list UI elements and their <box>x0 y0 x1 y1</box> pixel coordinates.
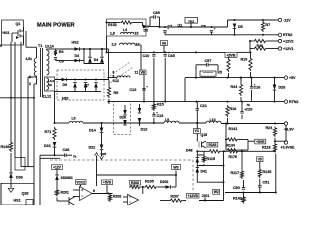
svg-text:2,3: 2,3 <box>112 43 117 47</box>
wire D5 lower lead <box>234 29 236 35</box>
svg-text:+12VB: +12VB <box>188 194 199 198</box>
svg-text:L4: L4 <box>123 28 127 32</box>
dashed box D26 <box>114 102 131 135</box>
power label +12V0 <box>52 165 63 170</box>
label pin 8 <box>113 71 115 75</box>
power label R206 box <box>130 180 141 185</box>
wire C50 links <box>225 180 244 193</box>
svg-text:C21: C21 <box>200 104 207 108</box>
svg-text:R44: R44 <box>231 85 239 89</box>
wire J201 wire <box>199 198 224 202</box>
resistor R142 <box>242 196 245 204</box>
wire D14 vertical <box>101 123 103 128</box>
wire horizontal into left edge <box>0 97 35 99</box>
svg-text:4,5x: 4,5x <box>26 57 33 61</box>
label R9 <box>114 91 119 95</box>
diode D36 <box>9 173 13 178</box>
power label +5VS <box>102 180 113 185</box>
wire C9 to bridge <box>56 59 85 62</box>
svg-text:V5: V5 <box>258 157 262 161</box>
component body Q28 <box>26 200 33 206</box>
label C50 <box>233 186 240 190</box>
label J201 <box>202 194 210 198</box>
dashed box heatsink <box>57 70 104 100</box>
wire R115 top vert <box>196 151 198 157</box>
svg-text:D9: D9 <box>63 83 68 87</box>
svg-text:C57: C57 <box>205 59 212 63</box>
label 1,6 <box>110 32 115 36</box>
svg-text:D28: D28 <box>279 86 286 90</box>
inductor L6 <box>69 121 83 123</box>
svg-text:J201: J201 <box>202 194 210 198</box>
wire D36 to ground <box>10 178 12 188</box>
resistor R152 <box>120 21 133 24</box>
svg-text:VA: VA <box>162 41 167 45</box>
svg-text:R19: R19 <box>241 58 248 62</box>
svg-text:R143: R143 <box>208 143 216 147</box>
wire R15 C19 link <box>153 112 155 124</box>
wire opamp2 leads <box>123 187 143 202</box>
svg-text:C8: C8 <box>201 25 206 29</box>
label C10 <box>143 54 150 58</box>
svg-text:D202: D202 <box>160 180 168 184</box>
label 15 <box>135 32 139 36</box>
wire rail77 left vert <box>184 78 186 102</box>
wire R16 lower <box>227 118 229 125</box>
diode D31 <box>53 142 57 147</box>
label pin 1 <box>29 75 31 79</box>
wire R152 right lead <box>133 22 143 24</box>
svg-text:+5VB: +5VB <box>227 53 236 57</box>
resistor R134 <box>226 148 238 151</box>
svg-text:D5: D5 <box>238 25 243 29</box>
wire D3 leads <box>143 23 160 27</box>
label HS1 <box>3 31 10 35</box>
label D202 <box>160 180 168 184</box>
capacitor C16 <box>250 84 256 88</box>
label L4 <box>123 28 127 32</box>
svg-text:D3: D3 <box>144 29 149 33</box>
box around Q1 <box>2 20 24 45</box>
svg-text:17: 17 <box>136 43 140 47</box>
svg-text:D41: D41 <box>201 170 207 174</box>
svg-text:C50: C50 <box>233 186 240 190</box>
svg-text:R176: R176 <box>229 155 237 159</box>
wire C21 leads <box>196 102 198 124</box>
transformer T1 secondary winding <box>47 50 50 75</box>
power label +12VB <box>187 193 200 198</box>
wire left bus 1 <box>10 42 12 141</box>
resistor R201 <box>55 189 58 197</box>
svg-text:+5VS: +5VS <box>103 181 112 185</box>
wire +12V0 down <box>56 169 58 175</box>
label HS2 lower <box>62 97 68 101</box>
wire big box left edge <box>40 155 55 205</box>
svg-text:R206: R206 <box>131 181 139 185</box>
svg-text:R16: R16 <box>230 107 237 111</box>
label C38 <box>63 148 70 152</box>
svg-text:2: 2 <box>29 82 31 86</box>
wire +5VS down <box>106 185 108 194</box>
wire right vertical 275 <box>275 154 277 194</box>
resistor R16 <box>226 105 229 117</box>
label D14 <box>89 129 97 133</box>
svg-text:C16: C16 <box>254 86 261 90</box>
transformer T1 primary winding <box>34 47 36 76</box>
diode D10 <box>84 83 88 88</box>
label D36 <box>16 176 23 180</box>
svg-text:C65: C65 <box>168 54 175 58</box>
resistor R19 <box>249 57 252 71</box>
capacitor C13 <box>142 86 148 90</box>
svg-text:VCC2: VCC2 <box>76 180 85 184</box>
diode D4a <box>75 47 80 51</box>
label R7 <box>266 23 271 27</box>
label D46 <box>94 58 99 62</box>
svg-text:R134: R134 <box>227 144 235 148</box>
svg-text:C13: C13 <box>130 88 137 92</box>
wire C51 links <box>259 179 261 193</box>
resistor R48b <box>253 47 267 50</box>
label C8 <box>201 25 206 29</box>
label R176 <box>229 155 237 159</box>
box around R152/L4 <box>107 19 147 36</box>
wire +3.3V to +3.3VS <box>285 125 287 141</box>
transistor Q15 <box>199 141 206 148</box>
wire vertical to R48 <box>249 41 251 52</box>
svg-text:Q15: Q15 <box>201 133 208 137</box>
resistor R176 <box>227 150 239 153</box>
inductor L10 <box>206 121 221 123</box>
box left-bottom <box>15 158 25 171</box>
wire L4 lower right lead <box>135 45 141 70</box>
wire rail 52.4 right part <box>237 51 250 53</box>
inductor L9 <box>164 121 179 123</box>
svg-text:+12V1: +12V1 <box>283 47 294 51</box>
wire D26 leads <box>124 105 126 125</box>
label D4 <box>75 54 81 58</box>
svg-text:R207: R207 <box>171 195 179 199</box>
diode D28 <box>273 85 277 91</box>
connector +3.3VS <box>284 141 287 144</box>
label R44 <box>231 85 239 89</box>
resistor R48a <box>253 39 267 42</box>
svg-text:W2: W2 <box>214 190 219 194</box>
svg-text:Q1: Q1 <box>16 22 21 26</box>
wire +5VR link <box>248 140 255 142</box>
wire R152 box stub down <box>106 36 108 53</box>
power label W3 <box>172 165 181 170</box>
zener diode D2SD <box>55 175 59 180</box>
wire R24-R118 link <box>274 138 276 143</box>
label edge 9 <box>0 44 2 48</box>
wire rail 123 right <box>221 123 284 125</box>
wire T1 top lead to rail <box>47 49 61 50</box>
label R202 <box>113 195 121 199</box>
wire D202 leads <box>161 186 176 188</box>
label D13 <box>141 128 148 132</box>
wire D28 leads <box>274 78 276 102</box>
wire R48a leads <box>249 40 278 49</box>
wire R149 to D36 <box>10 153 12 173</box>
IC U3 body <box>200 71 216 78</box>
capacitor C10 <box>152 52 158 56</box>
label D22 <box>89 146 96 150</box>
svg-text:D14: D14 <box>89 129 97 133</box>
svg-text:D4: D4 <box>94 58 99 62</box>
wire rail RTN2 lower <box>108 101 285 103</box>
label C16 <box>254 86 261 90</box>
label Q15 <box>201 133 208 137</box>
label D3 <box>144 29 149 33</box>
svg-text:15: 15 <box>135 32 139 36</box>
wire R118 bottom <box>275 140 286 142</box>
svg-text:K5: K5 <box>218 71 223 75</box>
connector +3.3V <box>284 122 287 125</box>
svg-text:C89: C89 <box>153 11 160 15</box>
label C7 <box>168 25 173 29</box>
svg-text:C51: C51 <box>263 181 270 185</box>
svg-text:9: 9 <box>0 44 2 48</box>
label U1 <box>178 24 183 28</box>
label pin 6 <box>113 75 115 79</box>
wire R201 down <box>57 198 69 202</box>
label R15 <box>157 103 164 107</box>
wire D41 down <box>197 173 224 184</box>
wire R142 top <box>243 193 245 196</box>
wire W3 junction down <box>175 175 177 187</box>
svg-text:7912: 7912 <box>188 19 194 23</box>
label R19 <box>241 58 248 62</box>
label C29 <box>246 108 253 112</box>
power label R143 <box>207 142 218 147</box>
diode D13b <box>138 118 142 123</box>
label C89 <box>153 11 160 15</box>
wire C29 leads <box>241 102 243 119</box>
svg-text:R6: R6 <box>59 50 64 54</box>
label 4,5,9 <box>48 79 55 83</box>
inductor L5 <box>117 76 130 78</box>
wire rail 79.5 <box>55 79 109 81</box>
label C9 <box>59 60 64 64</box>
label pins 11,12 <box>43 95 52 99</box>
label pin 2 <box>29 82 31 86</box>
wire Q1 gate stub <box>11 33 13 42</box>
wire V5 stub <box>259 161 261 168</box>
svg-text:8: 8 <box>93 189 95 193</box>
wire D13 leads <box>139 104 141 126</box>
transformer T1 core <box>41 48 43 97</box>
resistor R24 <box>273 127 276 138</box>
transistor Q1 <box>12 27 24 44</box>
wire R10 top <box>228 57 230 78</box>
svg-text:T1: T1 <box>38 44 42 48</box>
ground symbol (open triangle) <box>8 188 14 192</box>
wire C38 leads <box>55 154 73 156</box>
diode D46a <box>88 57 92 63</box>
wire rail 52.4 <box>107 51 226 53</box>
svg-text:D22: D22 <box>89 146 96 150</box>
wire R117 top <box>241 151 243 169</box>
label 2,3 <box>112 43 117 47</box>
resistor R6 <box>54 49 57 56</box>
diode D22 <box>100 145 104 150</box>
wire T1 pin2 lead <box>34 76 37 84</box>
connector -12V <box>278 18 291 22</box>
wire D22 down <box>101 150 103 156</box>
label C13 <box>130 88 137 92</box>
wire op-amp1 leads <box>73 185 113 197</box>
wire U1 leads <box>190 23 192 27</box>
wire bridge vertical <box>84 49 104 64</box>
label 2SD861 <box>61 176 73 180</box>
label HS1 (heatsink Q28) <box>14 199 21 203</box>
svg-text:R141: R141 <box>229 127 238 131</box>
capacitor C38 <box>65 154 67 157</box>
label C12 <box>113 79 119 83</box>
wire left bus 5 <box>33 84 35 205</box>
diode D41 <box>196 168 200 173</box>
svg-text:MAIN POWER: MAIN POWER <box>37 23 75 29</box>
label D31 <box>44 144 51 148</box>
wire rail 151.3 right <box>221 150 227 152</box>
svg-text:C29: C29 <box>246 108 253 112</box>
svg-text:R142: R142 <box>233 197 242 201</box>
svg-text:HS1: HS1 <box>3 31 10 35</box>
svg-text:R24: R24 <box>266 126 274 130</box>
svg-text:+3.3VSE: +3.3VSE <box>281 146 296 150</box>
diode D46b <box>100 57 104 63</box>
label L9 <box>165 118 169 122</box>
diode D26a <box>123 110 127 115</box>
svg-text:C19: C19 <box>157 114 164 118</box>
schematic title MAIN POWER <box>37 23 75 29</box>
label R115 <box>207 157 216 161</box>
svg-text:R9: R9 <box>114 91 119 95</box>
label Q25 <box>101 152 107 156</box>
wire rail 49 segment <box>60 48 109 50</box>
label 7b <box>247 103 251 107</box>
diode D3 <box>143 25 148 29</box>
capacitor C7 <box>163 28 169 32</box>
wire box top edge <box>40 157 60 159</box>
wire C57 leads <box>196 65 218 78</box>
voltage regulator U1 <box>185 18 198 24</box>
resistor R141a <box>226 138 238 141</box>
svg-text:D13: D13 <box>141 128 148 132</box>
wire zener to R201 <box>56 180 58 189</box>
svg-text:L6: L6 <box>72 117 76 121</box>
diode D40 <box>196 158 200 163</box>
wire R115 links <box>197 151 204 165</box>
wire C89 wire <box>150 17 160 27</box>
svg-text:2SD861: 2SD861 <box>61 176 73 180</box>
wire W3 stub <box>175 171 177 176</box>
label R6 <box>59 50 64 54</box>
label R71 <box>45 130 52 134</box>
diode D8 <box>62 78 67 82</box>
wire rail 123 mid2 <box>179 122 206 124</box>
diode D5 <box>233 24 237 29</box>
power label W2 <box>213 190 220 195</box>
svg-text:11: 11 <box>135 71 139 75</box>
capacitor C57 <box>207 63 209 66</box>
transistor Q26 <box>69 197 75 206</box>
svg-text:D26: D26 <box>120 116 126 120</box>
svg-text:+5V: +5V <box>289 76 296 80</box>
op-amp U4A <box>80 187 93 201</box>
wire rail 123 mid <box>83 122 164 124</box>
connector RTN2 lower <box>284 100 298 104</box>
svg-text:R118: R118 <box>262 146 271 150</box>
wire rail 151.3 far right <box>239 150 276 152</box>
label R117 <box>231 171 240 175</box>
svg-text:RTN2: RTN2 <box>289 100 298 104</box>
wire R207 leads <box>160 200 186 202</box>
wire D40 to D41 <box>196 163 198 168</box>
resistor R118 <box>273 143 276 153</box>
resistor R144 <box>208 150 221 153</box>
svg-text:D7: D7 <box>85 84 90 88</box>
svg-text:D31: D31 <box>44 144 51 148</box>
svg-text:R201: R201 <box>61 191 69 195</box>
wire rail 151.3 <box>196 150 208 152</box>
connector +5V <box>284 76 296 80</box>
wire control rail 175 <box>97 156 178 187</box>
wire left bus 2 <box>14 42 16 158</box>
wire R152 left lead <box>106 22 121 24</box>
diode D4b <box>75 59 80 63</box>
connector +12V2 <box>278 39 293 43</box>
label D7 <box>85 84 90 88</box>
wire diode D46a lead <box>89 48 91 57</box>
wire R9 leads <box>108 80 110 104</box>
svg-text:Q25: Q25 <box>101 152 107 156</box>
capacitor C89 <box>154 15 156 18</box>
resistor R205 <box>144 185 158 188</box>
wire rail 191 <box>243 192 277 194</box>
diode D13a <box>138 108 142 113</box>
label D48 <box>186 149 192 153</box>
resistor R115 <box>202 155 205 163</box>
label +3.3VSE <box>281 146 296 150</box>
svg-text:7b: 7b <box>247 103 251 107</box>
wire left bus 3 <box>21 42 34 167</box>
wire T1 pin1 lead <box>28 76 37 78</box>
svg-text:Q28: Q28 <box>22 192 29 196</box>
resistor R202 <box>108 194 111 203</box>
label HS2 <box>72 41 79 45</box>
label K5 <box>218 71 223 75</box>
wire T1 right lower lead down <box>54 91 56 124</box>
diode D26b <box>123 120 127 125</box>
label R118 <box>262 146 271 150</box>
svg-text:W3: W3 <box>173 165 178 169</box>
power label VA <box>161 41 168 46</box>
arrow to primary net <box>95 153 99 156</box>
svg-text:R71: R71 <box>45 130 52 134</box>
svg-text:L10: L10 <box>210 118 216 122</box>
power label V5 <box>257 157 264 162</box>
svg-text:RTN2: RTN2 <box>283 33 292 37</box>
label R201 <box>61 191 69 195</box>
resistor R44 <box>239 83 242 96</box>
svg-text:10: 10 <box>49 83 53 87</box>
diode D14 <box>100 128 104 133</box>
svg-text:D36: D36 <box>16 176 23 180</box>
label L10 <box>210 118 216 122</box>
label 4,5x <box>26 57 33 61</box>
